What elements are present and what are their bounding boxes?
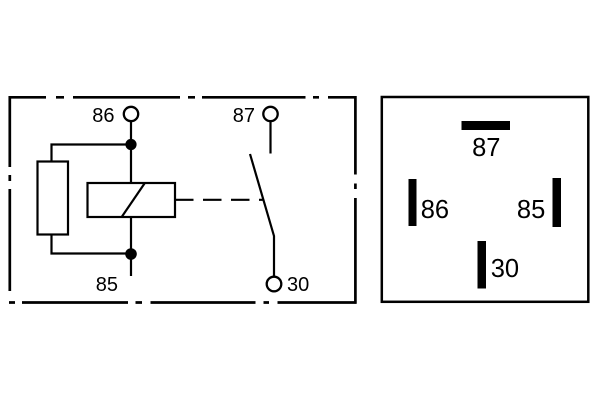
svg-text:86: 86 bbox=[421, 196, 449, 224]
svg-text:30: 30 bbox=[491, 255, 519, 283]
svg-text:30: 30 bbox=[287, 274, 309, 296]
svg-text:87: 87 bbox=[472, 134, 500, 162]
svg-text:85: 85 bbox=[96, 274, 118, 296]
svg-text:85: 85 bbox=[517, 196, 545, 224]
svg-text:87: 87 bbox=[233, 105, 255, 127]
svg-text:86: 86 bbox=[92, 105, 114, 127]
